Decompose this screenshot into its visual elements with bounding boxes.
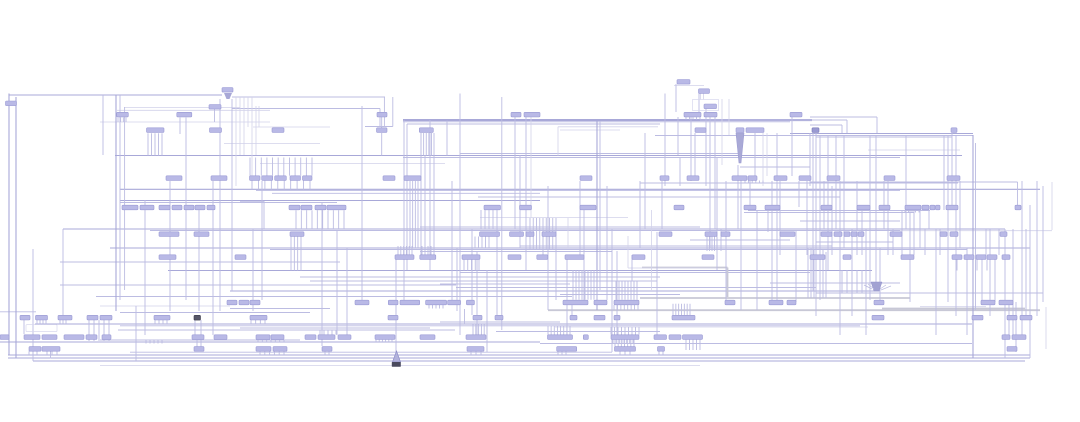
wire: [125, 118, 127, 123]
wire: [1021, 181, 1023, 335]
wire: [590, 270, 592, 300]
wire: [464, 309, 466, 324]
wire: [766, 133, 768, 176]
wire: [185, 118, 187, 301]
net label: [448, 300, 461, 305]
wire: [614, 327, 616, 335]
wire: [812, 133, 814, 291]
wire: [264, 351, 266, 355]
net label: [683, 335, 703, 340]
wire: [1045, 307, 1047, 349]
wire: [103, 320, 105, 341]
net label: [388, 315, 398, 320]
net label: [843, 255, 851, 260]
wire: [423, 133, 425, 156]
wire: [810, 124, 842, 126]
wire: [856, 270, 858, 293]
wire: [272, 158, 274, 176]
wire: [985, 229, 987, 255]
net label: [484, 205, 501, 210]
net label: [272, 128, 284, 133]
wire: [658, 351, 660, 355]
wire: [619, 351, 621, 355]
wire: [273, 351, 275, 355]
wire: [635, 327, 637, 335]
wire: [851, 270, 853, 293]
wire: [486, 270, 488, 352]
wire: [117, 109, 270, 111]
wire: [459, 94, 461, 336]
wire: [748, 181, 750, 184]
wire: [23, 320, 25, 334]
net label: [674, 205, 684, 210]
wire: [346, 248, 348, 335]
wire: [427, 246, 429, 255]
wire: [316, 210, 318, 229]
wire: [762, 181, 764, 184]
wire: [258, 106, 260, 127]
wire: [420, 133, 422, 156]
wire: [630, 340, 632, 347]
wire: [120, 200, 540, 202]
net label: [42, 347, 60, 352]
wire: [59, 320, 61, 325]
wire: [846, 270, 848, 293]
wire: [157, 340, 159, 344]
wire: [716, 157, 718, 270]
net label: [930, 205, 935, 210]
wire: [714, 112, 716, 229]
wire: [120, 325, 860, 327]
wire: [343, 210, 345, 229]
wire: [827, 135, 829, 270]
net label: [86, 335, 97, 340]
net label: [821, 232, 832, 237]
wire: [32, 351, 34, 355]
wire: [664, 94, 666, 187]
wire: [247, 97, 249, 127]
wire: [259, 320, 261, 324]
wire: [558, 126, 658, 128]
wire: [36, 351, 38, 355]
net label: [1015, 205, 1021, 210]
wire: [705, 108, 707, 186]
net label: [704, 104, 717, 109]
wire: [379, 109, 381, 127]
wire: [621, 281, 623, 300]
wire: [328, 351, 330, 355]
wire: [823, 181, 825, 229]
net label: [769, 300, 783, 305]
wire: [714, 237, 716, 252]
wire: [994, 255, 996, 302]
wire: [856, 181, 858, 255]
wire: [776, 133, 778, 302]
wire: [8, 357, 1030, 359]
wire: [381, 117, 383, 129]
net label: [473, 315, 482, 320]
net label: [192, 335, 204, 340]
wire: [771, 181, 773, 300]
wire: [685, 117, 687, 120]
wire: [740, 166, 810, 168]
net label: [1020, 315, 1032, 320]
wire: [331, 330, 333, 335]
wire: [290, 236, 292, 270]
wire: [100, 339, 300, 341]
wire: [409, 181, 411, 248]
net label: [327, 205, 346, 210]
net label: [1002, 335, 1010, 340]
net label: [250, 300, 260, 305]
wire: [756, 210, 758, 310]
wire: [251, 97, 253, 186]
wire: [633, 281, 635, 300]
wire: [118, 329, 455, 331]
wire: [194, 320, 196, 335]
wire: [100, 121, 270, 123]
wire: [397, 246, 399, 255]
wire: [630, 281, 632, 300]
wire: [240, 200, 264, 202]
wire: [407, 123, 660, 125]
wire: [661, 181, 663, 229]
net label: [222, 88, 233, 93]
net label: [322, 347, 332, 352]
wire: [420, 251, 612, 253]
wire: [550, 326, 552, 335]
wire: [383, 97, 385, 127]
wire: [440, 283, 570, 285]
wire: [901, 210, 903, 255]
wire: [955, 135, 957, 316]
wire: [596, 121, 598, 310]
wire: [266, 158, 268, 176]
wire: [98, 320, 100, 341]
wire: [810, 181, 1018, 183]
wire: [924, 229, 926, 255]
wire: [816, 292, 1043, 294]
net label: [570, 315, 577, 320]
wire: [678, 304, 680, 316]
wire: [642, 267, 728, 269]
wire: [547, 326, 549, 335]
wire: [692, 340, 694, 351]
wire: [919, 210, 921, 248]
wire: [119, 95, 121, 300]
wire: [615, 281, 617, 300]
net label: [166, 176, 182, 181]
wire: [542, 218, 544, 250]
net label: [702, 255, 714, 260]
wire: [475, 324, 477, 335]
wire: [728, 99, 730, 135]
wire: [15, 97, 17, 358]
wire: [480, 324, 482, 335]
wire: [748, 210, 930, 212]
net label: [732, 176, 747, 181]
wire: [1008, 302, 1010, 335]
wire: [478, 324, 480, 335]
wire: [96, 296, 572, 298]
wire: [214, 109, 216, 122]
wire: [388, 340, 390, 342]
net label: [940, 232, 947, 237]
wire: [150, 230, 900, 232]
net label: [1000, 232, 1007, 237]
wire: [149, 340, 151, 344]
net label: [462, 255, 480, 260]
wire: [471, 260, 473, 271]
wire: [361, 106, 363, 300]
wire: [483, 324, 485, 335]
wire: [904, 210, 906, 213]
wire: [749, 181, 751, 210]
wire: [700, 119, 847, 121]
wire: [1004, 229, 1006, 358]
wire: [599, 121, 601, 290]
wire: [553, 326, 555, 335]
net label: [420, 255, 436, 260]
net label: [583, 335, 588, 340]
net label: [377, 128, 388, 133]
wire: [0, 341, 540, 343]
net label: [542, 232, 556, 237]
wire: [644, 133, 646, 229]
net label: [851, 232, 857, 237]
wire: [520, 245, 832, 247]
wire: [88, 320, 90, 341]
wire: [381, 133, 383, 156]
wire: [212, 181, 214, 335]
net label: [303, 176, 313, 181]
net label: [614, 315, 620, 320]
wire: [309, 181, 311, 190]
wire: [460, 272, 810, 274]
wire: [790, 133, 973, 135]
wire: [807, 248, 809, 298]
net label: [508, 255, 521, 260]
net label: [884, 176, 895, 181]
wire: [408, 246, 410, 255]
wire: [50, 351, 52, 359]
wire: [257, 340, 259, 342]
net label: [117, 112, 129, 117]
wire: [405, 246, 407, 255]
wire: [679, 157, 681, 186]
wire: [699, 117, 701, 120]
net label: [677, 80, 690, 85]
net label: [275, 176, 287, 181]
net label: [184, 205, 194, 210]
wire: [989, 229, 991, 316]
net label: [526, 232, 534, 237]
wire: [277, 158, 279, 176]
wire: [640, 182, 958, 184]
wire: [696, 117, 698, 120]
net label: [736, 128, 744, 133]
net label: [744, 205, 756, 210]
wire: [751, 181, 753, 184]
net label: [315, 205, 326, 210]
wire: [819, 135, 821, 300]
wire: [640, 297, 910, 299]
net label: [305, 335, 316, 340]
net label: [548, 335, 573, 340]
net label: [100, 315, 112, 320]
wire: [627, 281, 629, 300]
wire: [120, 202, 337, 204]
wire: [709, 117, 711, 248]
wire: [677, 117, 679, 155]
wire: [249, 158, 251, 176]
wire: [429, 120, 431, 270]
net label: [746, 128, 764, 133]
net label: [787, 300, 796, 305]
net label: [976, 255, 986, 260]
net label: [748, 176, 757, 181]
wire: [496, 331, 660, 333]
net label: [672, 315, 695, 320]
wire: [809, 133, 811, 186]
wire: [255, 158, 257, 176]
wire: [846, 120, 848, 133]
wire: [825, 252, 827, 298]
wire: [230, 290, 880, 292]
net label: [87, 315, 98, 320]
wire: [908, 210, 910, 213]
wire: [311, 158, 313, 176]
wire: [876, 117, 878, 133]
wire: [488, 237, 490, 249]
wire: [478, 260, 480, 271]
wire: [545, 218, 547, 250]
wire: [703, 93, 705, 100]
wire: [196, 340, 198, 347]
wire: [252, 229, 254, 311]
net label: [194, 347, 204, 352]
wire: [911, 210, 913, 213]
net label: [721, 232, 730, 237]
wire: [378, 340, 380, 342]
wire: [755, 181, 757, 184]
wire: [1051, 182, 1053, 230]
wire: [638, 327, 640, 335]
wire: [981, 255, 983, 305]
net label: [194, 232, 209, 237]
wire: [425, 133, 427, 156]
wire: [1017, 182, 1019, 205]
wire: [169, 181, 171, 311]
net label: [611, 335, 639, 340]
wire: [816, 136, 952, 138]
wire: [124, 107, 240, 109]
wire: [255, 106, 257, 155]
wire: [270, 249, 967, 251]
net label: [395, 255, 414, 260]
wire: [420, 133, 422, 255]
wire: [135, 306, 137, 361]
wire: [555, 218, 557, 250]
wire: [430, 246, 432, 255]
net label: [704, 112, 717, 117]
wire: [616, 251, 618, 335]
wire: [264, 181, 266, 190]
net label: [42, 335, 57, 340]
wire: [861, 270, 863, 293]
wire: [294, 158, 296, 176]
wire: [651, 210, 653, 290]
net label: [952, 255, 962, 260]
wire: [571, 304, 573, 315]
wire: [230, 308, 330, 310]
wire: [624, 351, 626, 355]
wire: [711, 237, 713, 252]
wire: [865, 229, 867, 335]
wire: [414, 181, 416, 248]
wire: [611, 229, 613, 352]
net label: [290, 176, 301, 181]
net label: [964, 255, 974, 260]
wire: [1042, 186, 1044, 302]
wire: [627, 340, 629, 347]
wire: [65, 320, 67, 325]
wire: [540, 343, 972, 345]
wire: [467, 260, 469, 271]
wire: [1029, 205, 1031, 358]
wire: [632, 340, 634, 344]
wire: [561, 351, 563, 355]
wire: [478, 237, 480, 249]
wire: [421, 246, 423, 255]
net label: [615, 347, 636, 352]
wire: [411, 246, 413, 255]
wire: [630, 305, 632, 310]
wire: [200, 340, 202, 347]
net label: [874, 300, 884, 305]
net label: [614, 300, 639, 305]
wire: [560, 129, 620, 131]
wire: [39, 320, 41, 325]
net label: [140, 205, 154, 210]
net label: [725, 300, 735, 305]
net label: [684, 112, 701, 117]
net label: [972, 315, 983, 320]
wire: [956, 259, 958, 270]
wire: [144, 200, 146, 335]
wire: [239, 97, 241, 155]
wire: [319, 330, 321, 335]
wire: [606, 186, 608, 300]
wire: [46, 351, 48, 355]
wire: [639, 181, 641, 248]
wire: [556, 326, 558, 335]
wire: [162, 320, 164, 324]
net label: [827, 176, 840, 181]
wire: [472, 324, 474, 335]
wire: [100, 365, 700, 367]
wire: [619, 340, 621, 344]
net label: [580, 176, 592, 181]
wire: [474, 237, 476, 249]
wire: [428, 133, 430, 156]
wire: [124, 107, 126, 290]
net label: [289, 205, 300, 210]
wire: [480, 351, 482, 355]
net label: [154, 315, 170, 320]
net label: [194, 315, 201, 320]
net label: [209, 105, 221, 110]
